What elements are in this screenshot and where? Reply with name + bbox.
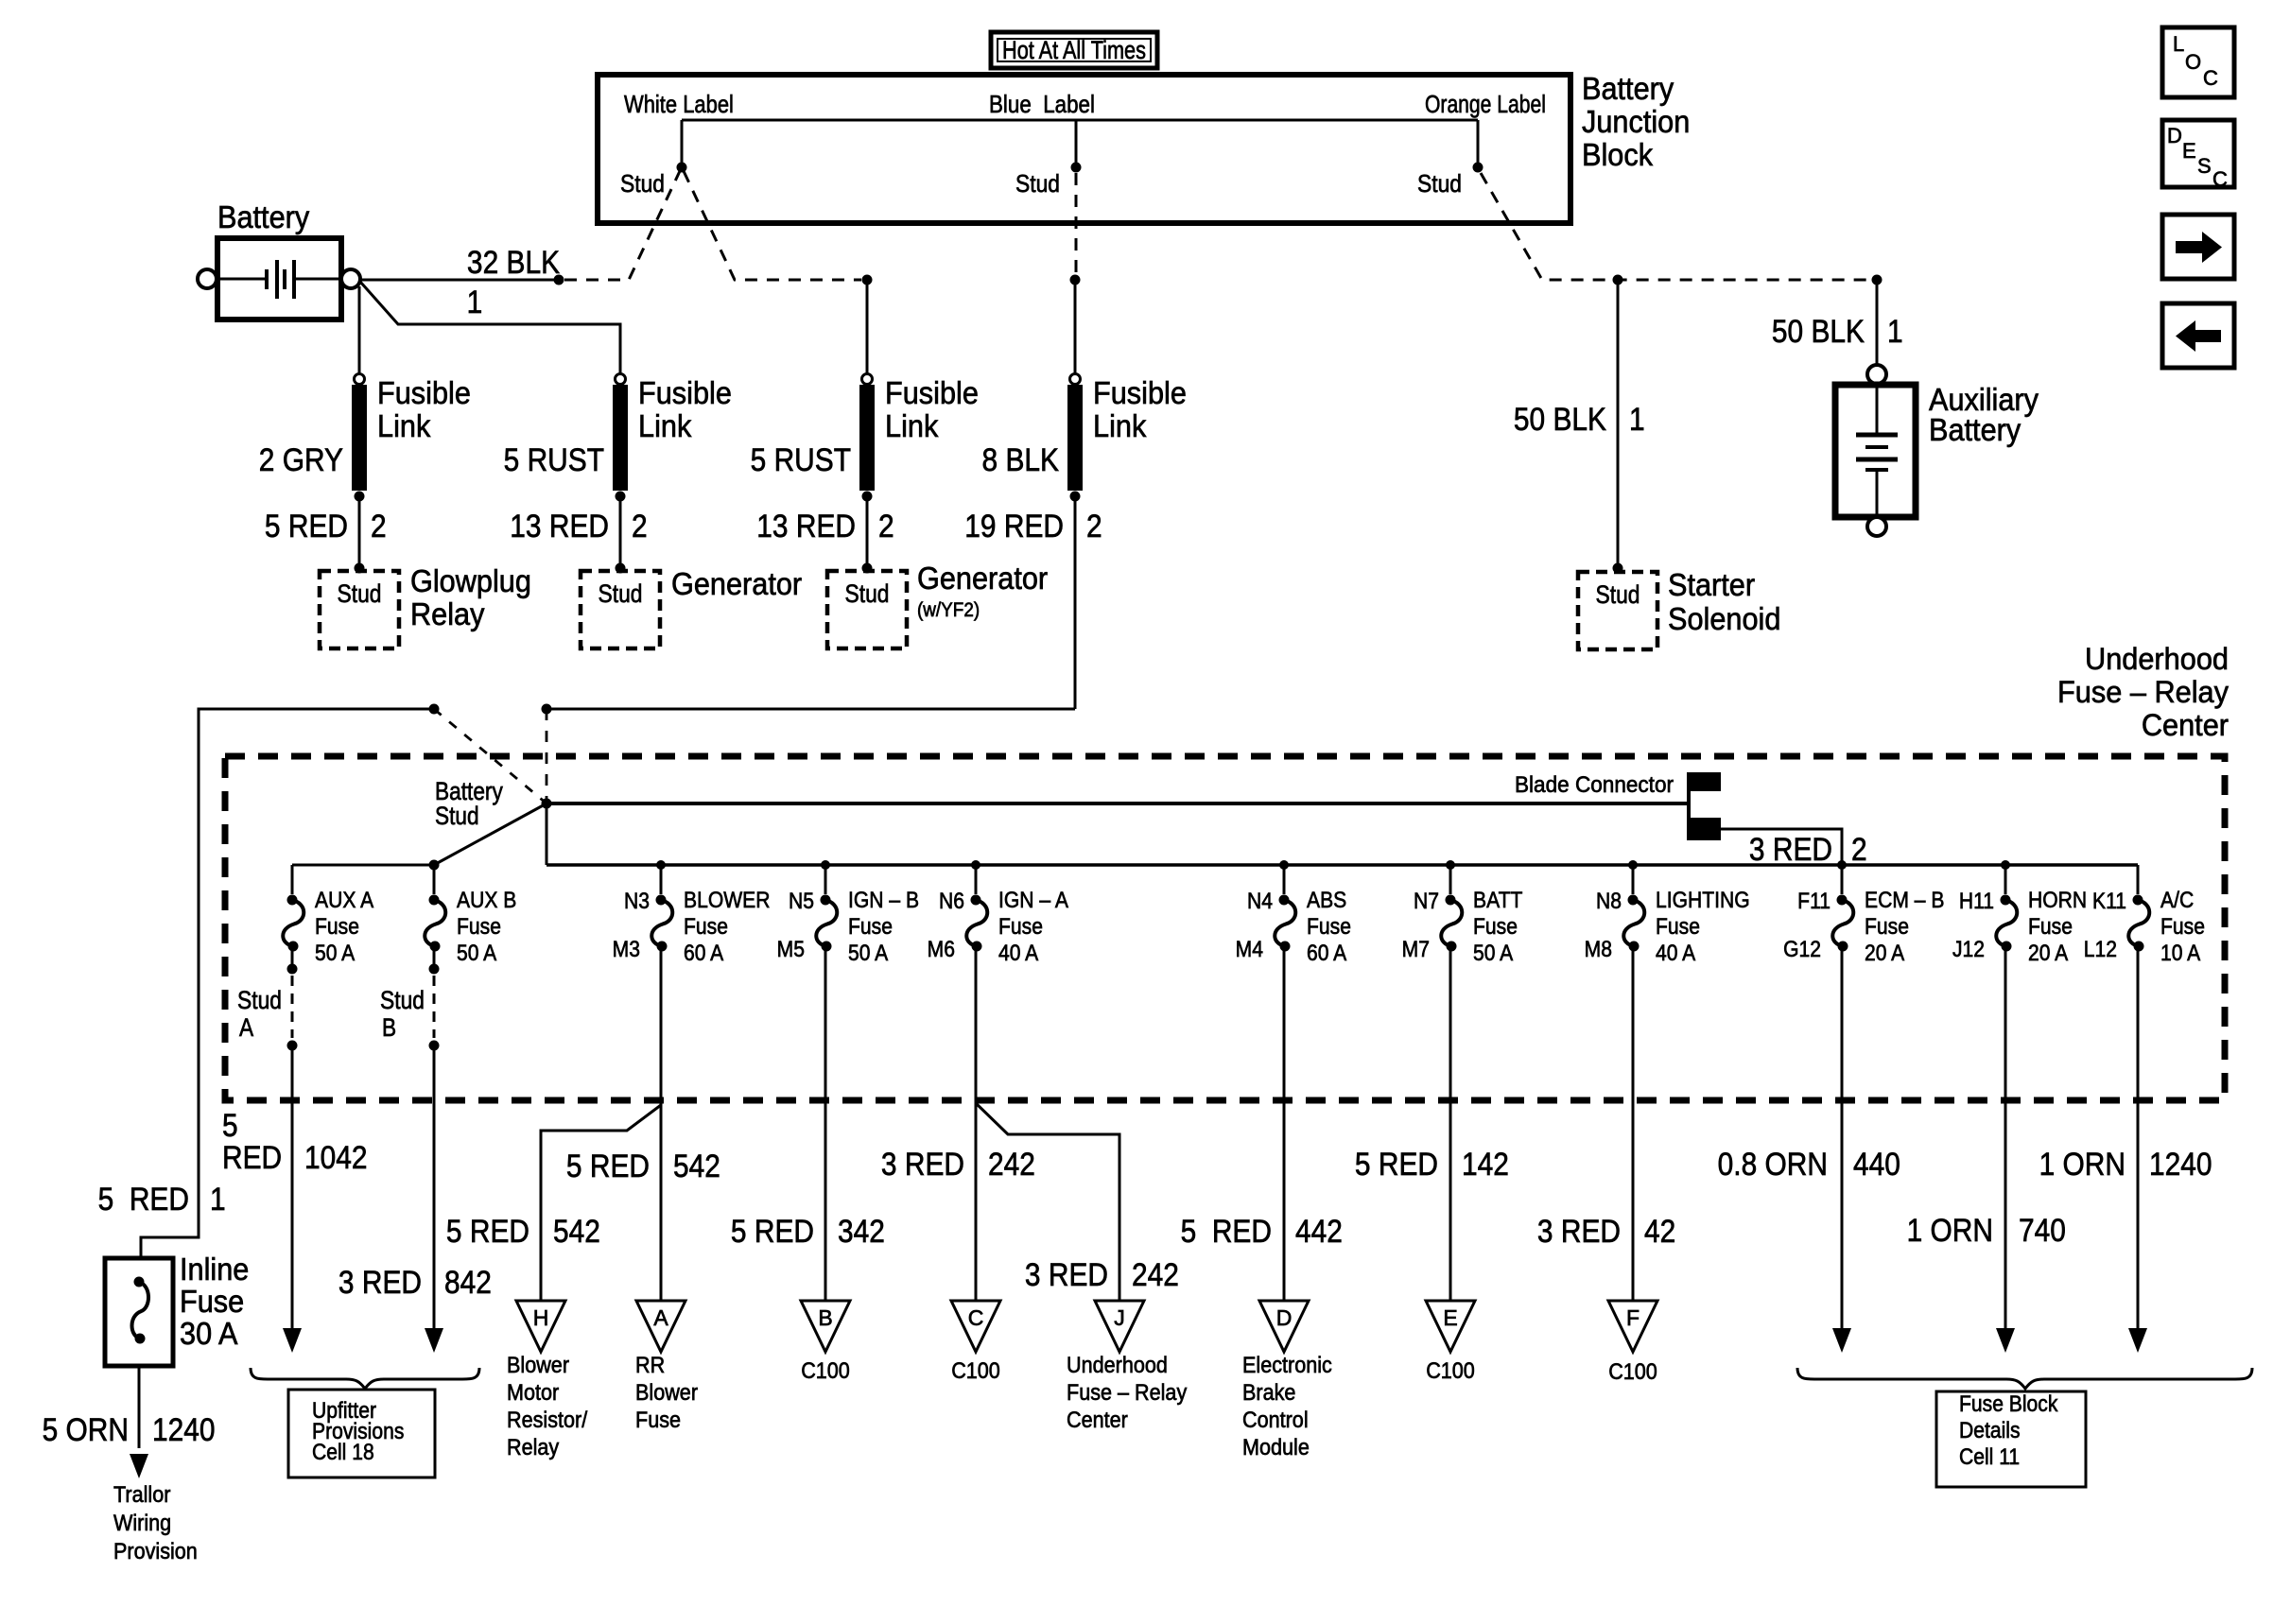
svg-text:O: O [2185, 50, 2201, 74]
svg-text:1042: 1042 [304, 1139, 368, 1175]
connector C [951, 1301, 1000, 1352]
svg-text:Battery: Battery [1929, 412, 2021, 447]
svg-text:E: E [2182, 139, 2196, 163]
svg-text:ECM – B: ECM – B [1865, 888, 1944, 913]
svg-text:60 A: 60 A [684, 941, 724, 966]
label 5 RUST [504, 441, 604, 477]
svg-text:5 RED: 5 RED [1181, 1213, 1272, 1249]
fusible link 4 [1067, 275, 1083, 502]
svg-text:Stud: Stud [620, 171, 665, 199]
fusible link 3 [859, 275, 875, 502]
svg-text:1240: 1240 [2149, 1146, 2212, 1182]
label RR Blower Fuse [635, 1352, 698, 1432]
svg-text:Junction: Junction [1582, 104, 1690, 139]
wire 5 RED 442 [1181, 946, 1343, 1301]
svg-text:Fuse: Fuse [457, 914, 501, 940]
wire 5 ORN 1240 [43, 1366, 216, 1478]
svg-text:Stud: Stud [380, 986, 425, 1014]
svg-text:M7: M7 [1402, 937, 1430, 962]
svg-text:Fuse: Fuse [998, 914, 1043, 940]
svg-text:N4: N4 [1247, 889, 1273, 914]
label Auxiliary Battery [1929, 382, 2039, 447]
svg-text:Inline: Inline [180, 1252, 249, 1287]
fuse IGN-B 50A [777, 860, 919, 965]
wire 5 RED 2 [265, 508, 387, 544]
wire 19 RED 2 [964, 508, 1102, 544]
wire 1 (battery to fusible link 2) [360, 282, 620, 374]
svg-text:5 RUST: 5 RUST [504, 441, 604, 477]
svg-text:13 RED: 13 RED [756, 508, 856, 544]
svg-text:442: 442 [1295, 1213, 1343, 1249]
label Fusible Link at x=656 [638, 375, 732, 443]
icon box arrow left [2162, 303, 2234, 368]
icon box DESC [2162, 120, 2234, 191]
svg-text:Fuse: Fuse [2028, 914, 2073, 940]
svg-text:HORN: HORN [2028, 888, 2087, 913]
svg-text:Trallor: Trallor [113, 1481, 171, 1507]
svg-text:F: F [1626, 1305, 1640, 1330]
label Fusible Link at x=917 [885, 375, 979, 443]
svg-text:LIGHTING: LIGHTING [1656, 888, 1750, 913]
wire 3 RED 42 [1537, 946, 1675, 1301]
svg-text:M5: M5 [777, 937, 805, 962]
svg-text:A/C: A/C [2160, 888, 2194, 913]
svg-text:N6: N6 [939, 889, 964, 914]
svg-text:Fusible: Fusible [1093, 375, 1187, 410]
label C100 (C) [951, 1357, 1000, 1383]
svg-text:Underhood: Underhood [2085, 642, 2229, 676]
fuse A/C 10A [2084, 865, 2205, 965]
wire 32 BLK [360, 244, 564, 285]
svg-text:M8: M8 [1585, 937, 1612, 962]
wire feed bus from fusible link 4 [141, 704, 1075, 1259]
svg-text:Fuse: Fuse [1656, 914, 1700, 940]
svg-text:Link: Link [1093, 408, 1146, 443]
svg-text:(w/YF2): (w/YF2) [917, 599, 980, 621]
svg-text:60 A: 60 A [1307, 941, 1347, 966]
svg-text:Link: Link [638, 408, 691, 443]
svg-text:Fuse: Fuse [180, 1284, 244, 1319]
svg-text:A: A [239, 1013, 253, 1042]
svg-text:2: 2 [1086, 508, 1102, 544]
svg-text:BATT: BATT [1473, 888, 1523, 913]
svg-text:Stud: Stud [1015, 171, 1060, 199]
underhood fuse-relay center border [225, 756, 2225, 1100]
svg-text:N7: N7 [1414, 889, 1439, 914]
svg-text:Battery: Battery [1582, 71, 1674, 106]
glowplug relay stud box [320, 571, 399, 648]
label Glowplug Relay [410, 563, 531, 631]
svg-text:M6: M6 [928, 937, 955, 962]
svg-text:Details: Details [1959, 1418, 2021, 1443]
svg-text:8 BLK: 8 BLK [982, 441, 1059, 477]
label Stud (white) [620, 171, 665, 199]
wire 50 BLK 1 (starter) [1514, 401, 1645, 437]
svg-text:50 BLK: 50 BLK [1514, 401, 1606, 437]
svg-text:C100: C100 [1426, 1357, 1475, 1383]
wire starter solenoid feed [1613, 275, 1623, 574]
svg-text:Cell 18: Cell 18 [312, 1440, 374, 1465]
label Stud (blue) [1015, 171, 1060, 199]
wire dashed white stud to fusible link 3 [684, 171, 861, 280]
svg-text:5 RED: 5 RED [1355, 1146, 1438, 1182]
svg-text:Stud: Stud [1417, 171, 1462, 199]
node White Label [624, 91, 734, 118]
label Fuse Block Details Cell 11 [1936, 1391, 2086, 1487]
label Trallor Wiring Provision [113, 1481, 198, 1564]
node battery stud [435, 777, 552, 830]
label 5 RUST [751, 441, 851, 477]
svg-text:542: 542 [673, 1148, 720, 1183]
wire 1 ORN 1240 [2039, 946, 2212, 1353]
svg-text:Blue Label: Blue Label [989, 91, 1095, 118]
inline fuse 30A [105, 1258, 173, 1366]
wire fusible link 1 to glowplug stud [355, 496, 365, 574]
svg-text:242: 242 [988, 1146, 1035, 1182]
svg-text:5 RED: 5 RED [265, 508, 348, 544]
wire orange label stud riser [1473, 120, 1484, 173]
svg-text:342: 342 [838, 1213, 885, 1249]
connector J [1095, 1301, 1144, 1352]
label 8 BLK [982, 441, 1059, 477]
svg-text:50 A: 50 A [457, 941, 497, 966]
svg-text:5 RUST: 5 RUST [751, 441, 851, 477]
wire 5 RED 542 (blower motor branch) [446, 1105, 661, 1301]
svg-text:Stud: Stud [435, 802, 479, 830]
svg-text:0.8 ORN: 0.8 ORN [1718, 1146, 1828, 1182]
svg-text:M4: M4 [1236, 937, 1263, 962]
svg-text:M3: M3 [613, 937, 640, 962]
label Hot At All Times [991, 32, 1157, 68]
svg-text:C100: C100 [801, 1357, 850, 1383]
svg-text:Center: Center [1067, 1407, 1128, 1432]
label Generator [671, 566, 803, 601]
wire dashed blue stud to fusible link 4 [1075, 173, 1078, 274]
svg-text:Fuse: Fuse [684, 914, 728, 940]
svg-text:J: J [1114, 1305, 1125, 1330]
svg-text:Fusible: Fusible [885, 375, 979, 410]
label Fusible Link at x=1137 [1093, 375, 1187, 443]
wire blue label stud riser [1071, 120, 1082, 173]
svg-text:Block: Block [1582, 137, 1653, 172]
svg-text:Electronic: Electronic [1242, 1352, 1332, 1377]
label Blower Motor Resistor/Relay [507, 1352, 588, 1460]
wire 5 RED 142 [1355, 946, 1509, 1301]
svg-text:Fuse: Fuse [1473, 914, 1518, 940]
svg-text:H: H [533, 1305, 549, 1330]
svg-text:1: 1 [210, 1181, 226, 1217]
fuse AUX A 50A [283, 865, 374, 965]
svg-text:BLOWER: BLOWER [684, 888, 770, 913]
svg-text:Relay: Relay [410, 596, 485, 631]
svg-text:Fuse Block: Fuse Block [1959, 1391, 2058, 1417]
wire 3 RED 2 [1721, 829, 1867, 867]
wire white label stud riser [677, 120, 687, 173]
wire fusible link 4 down to fuse center [1074, 496, 1077, 709]
fuse BLOWER 60A [613, 860, 771, 965]
wire 5 RED 1 [98, 1181, 226, 1217]
svg-text:Stud: Stud [338, 579, 382, 608]
fuse ECM-B 20A [1783, 860, 1944, 965]
connector D [1259, 1301, 1309, 1352]
svg-text:740: 740 [2019, 1212, 2066, 1248]
svg-text:1: 1 [1887, 313, 1903, 349]
svg-text:Stud: Stud [1596, 580, 1640, 609]
svg-text:Control: Control [1242, 1407, 1309, 1432]
svg-text:50 A: 50 A [315, 941, 356, 966]
wire 3 RED 242 (branch to J) [976, 1103, 1179, 1301]
svg-text:J12: J12 [1952, 937, 1985, 962]
svg-text:Fuse: Fuse [315, 914, 359, 940]
svg-text:5 RED: 5 RED [446, 1213, 529, 1249]
wire fusible link 3 to generator stud [862, 496, 873, 574]
wire 3 RED 842 (AUX B output) [338, 1045, 492, 1353]
wire dashed white stud to 32 BLK node [564, 171, 680, 280]
wire 3 RED 242 (IGN-A to C100) [881, 946, 1035, 1301]
wire 13 RED 2 [756, 508, 894, 544]
svg-text:5 RED: 5 RED [731, 1213, 814, 1249]
svg-text:C: C [2212, 167, 2228, 191]
svg-text:5 RED: 5 RED [98, 1181, 189, 1217]
svg-text:Link: Link [377, 408, 430, 443]
wire junction block bus [682, 119, 1478, 122]
svg-text:32 BLK: 32 BLK [467, 244, 560, 280]
svg-text:C100: C100 [951, 1357, 1000, 1383]
fuse HORN 20A [1952, 860, 2087, 965]
fusible link 1 [352, 286, 367, 502]
svg-text:Provision: Provision [113, 1538, 198, 1564]
connector E [1426, 1301, 1475, 1352]
svg-text:Fuse – Relay: Fuse – Relay [1067, 1379, 1188, 1405]
svg-text:RED: RED [222, 1139, 282, 1175]
svg-text:Generator: Generator [917, 561, 1049, 596]
svg-text:Fuse: Fuse [1307, 914, 1351, 940]
fuse ABS 60A [1236, 860, 1351, 965]
svg-text:K11: K11 [2092, 889, 2126, 914]
label C100 (B) [801, 1357, 850, 1383]
generator stud box [581, 571, 660, 648]
svg-text:50 BLK: 50 BLK [1772, 313, 1865, 349]
wire 0.8 ORN 440 [1718, 946, 1900, 1353]
svg-text:Blower: Blower [635, 1379, 698, 1405]
wire 50 BLK 1 (aux battery) [1772, 275, 1903, 366]
icon box arrow right [2162, 215, 2234, 279]
brace upfitter [251, 1368, 479, 1389]
wire aux fuse bus [292, 864, 434, 867]
svg-text:2: 2 [632, 508, 648, 544]
svg-text:Center: Center [2142, 708, 2229, 742]
svg-text:3 RED: 3 RED [1537, 1213, 1621, 1249]
svg-text:1 ORN: 1 ORN [2039, 1146, 2126, 1182]
svg-text:2 GRY: 2 GRY [259, 441, 343, 477]
svg-text:Glowplug: Glowplug [410, 563, 531, 598]
label Upfitter Provisions Cell 18 [288, 1390, 435, 1477]
svg-text:2: 2 [878, 508, 894, 544]
battery [198, 199, 360, 320]
svg-text:542: 542 [553, 1213, 600, 1249]
svg-text:40 A: 40 A [998, 941, 1039, 966]
connector A [636, 1301, 685, 1352]
wire 5 RED 542 (RR blower) [566, 946, 720, 1301]
svg-text:3 RED: 3 RED [1025, 1256, 1108, 1292]
wire main bus to blade connector [547, 802, 1687, 805]
node Blue Label [989, 91, 1095, 118]
brace fuse block details [1797, 1368, 2252, 1389]
svg-text:Hot At All Times: Hot At All Times [1002, 37, 1146, 65]
wire battery stud drop [546, 803, 548, 865]
svg-text:ABS: ABS [1307, 888, 1346, 913]
svg-text:2: 2 [371, 508, 387, 544]
label C100 (F) [1608, 1358, 1657, 1384]
svg-text:Link: Link [885, 408, 938, 443]
wire battery stud to aux bus diagonal [429, 803, 547, 871]
fuse IGN-A 40A [928, 860, 1069, 965]
svg-text:B: B [818, 1305, 832, 1330]
svg-text:142: 142 [1462, 1146, 1509, 1182]
svg-text:842: 842 [444, 1264, 492, 1300]
svg-text:20 A: 20 A [2028, 941, 2069, 966]
svg-text:C: C [2203, 66, 2218, 90]
svg-text:242: 242 [1132, 1256, 1179, 1292]
starter solenoid stud box [1578, 572, 1657, 649]
wire 5 RED 342 [731, 946, 885, 1301]
wire fusible link 2 to generator stud [616, 496, 626, 574]
svg-text:Solenoid: Solenoid [1668, 601, 1780, 636]
svg-text:Generator: Generator [671, 566, 803, 601]
svg-text:Brake: Brake [1242, 1379, 1295, 1405]
wire dashed into battery stud (diagonal) [434, 709, 547, 803]
blade connector [1515, 771, 1721, 840]
svg-text:Resistor/: Resistor/ [507, 1407, 588, 1432]
svg-text:10 A: 10 A [2160, 941, 2201, 966]
svg-text:Fuse: Fuse [848, 914, 893, 940]
svg-text:30 A: 30 A [180, 1316, 238, 1351]
svg-text:IGN – A: IGN – A [998, 888, 1069, 913]
label Fusible Link at x=380 [377, 375, 471, 443]
svg-text:Fuse: Fuse [2160, 914, 2205, 940]
svg-text:Blade Connector: Blade Connector [1515, 771, 1674, 797]
wire dashed into battery stud (vertical) [546, 709, 548, 803]
label Underhood Fuse-Relay Center (J) [1067, 1352, 1188, 1432]
svg-text:F11: F11 [1797, 889, 1831, 914]
svg-text:N3: N3 [624, 889, 650, 914]
svg-text:50 A: 50 A [1473, 941, 1514, 966]
svg-text:D: D [2167, 124, 2182, 147]
connector H [516, 1301, 565, 1352]
wire dashed orange stud run [1481, 173, 1871, 280]
wire lower fuse bus [547, 863, 2138, 867]
fuse LIGHTING 40A [1585, 860, 1750, 965]
svg-text:Fuse: Fuse [635, 1407, 681, 1432]
svg-text:N8: N8 [1596, 889, 1622, 914]
svg-text:19 RED: 19 RED [964, 508, 1064, 544]
label Stud (orange) [1417, 171, 1462, 199]
label 2 GRY [259, 441, 343, 477]
svg-text:Cell 11: Cell 11 [1959, 1444, 2020, 1470]
fuse BATT 50A [1402, 860, 1523, 965]
svg-text:E: E [1443, 1305, 1457, 1330]
svg-text:Stud: Stud [599, 579, 643, 608]
svg-text:1: 1 [467, 284, 483, 320]
wire 13 RED 2 [510, 508, 647, 544]
svg-text:Battery: Battery [217, 199, 309, 234]
svg-text:AUX B: AUX B [457, 888, 516, 913]
svg-text:Blower: Blower [507, 1352, 569, 1377]
svg-text:Wiring: Wiring [113, 1510, 171, 1535]
svg-text:C: C [968, 1305, 984, 1330]
node Stud B [380, 946, 440, 1051]
svg-text:50 A: 50 A [848, 941, 889, 966]
svg-text:Motor: Motor [507, 1379, 560, 1405]
svg-text:Underhood: Underhood [1067, 1352, 1168, 1377]
svg-text:B: B [382, 1013, 396, 1042]
svg-text:Fuse – Relay: Fuse – Relay [2057, 675, 2229, 709]
svg-text:Module: Module [1242, 1434, 1310, 1460]
svg-text:2: 2 [1851, 831, 1867, 867]
svg-text:IGN – B: IGN – B [848, 888, 919, 913]
fuse AUX B 50A [425, 865, 516, 965]
fusible link 2 [613, 374, 628, 502]
svg-text:5: 5 [222, 1107, 238, 1143]
node Orange Label [1425, 92, 1546, 119]
node Stud A [237, 946, 298, 1051]
svg-text:L12: L12 [2084, 937, 2117, 962]
svg-text:Relay: Relay [507, 1434, 560, 1460]
wire 5 RED 1042 (AUX A output) [222, 1045, 368, 1353]
svg-text:G12: G12 [1783, 937, 1821, 962]
svg-text:42: 42 [1644, 1213, 1675, 1249]
connector F [1608, 1301, 1657, 1352]
svg-text:Orange Label: Orange Label [1425, 92, 1546, 119]
label Electronic Brake Control Module [1242, 1352, 1332, 1460]
svg-text:L: L [2173, 32, 2184, 56]
svg-text:Starter: Starter [1668, 567, 1755, 602]
svg-text:N5: N5 [789, 889, 814, 914]
label Battery Junction Block [1582, 71, 1690, 172]
svg-text:440: 440 [1853, 1146, 1900, 1182]
svg-text:RR: RR [635, 1352, 665, 1377]
svg-text:1240: 1240 [152, 1411, 216, 1447]
svg-text:5 ORN: 5 ORN [43, 1411, 129, 1447]
label Underhood Fuse-Relay Center [2057, 642, 2229, 742]
auxiliary battery [1835, 365, 1916, 536]
connector B [801, 1301, 850, 1352]
svg-text:13 RED: 13 RED [510, 508, 609, 544]
wire 1 ORN 740 [1907, 946, 2066, 1353]
svg-text:C100: C100 [1608, 1358, 1657, 1384]
svg-text:AUX A: AUX A [315, 888, 374, 913]
svg-text:20 A: 20 A [1865, 941, 1905, 966]
svg-text:S: S [2197, 154, 2212, 178]
svg-text:A: A [653, 1305, 668, 1330]
svg-text:Stud: Stud [845, 579, 890, 608]
svg-text:1 ORN: 1 ORN [1907, 1212, 1993, 1248]
icon box LOC [2162, 27, 2234, 97]
svg-text:D: D [1276, 1305, 1293, 1330]
label Generator (w/YF2) [917, 561, 1049, 621]
battery junction block [598, 75, 1570, 223]
svg-text:3 RED: 3 RED [881, 1146, 964, 1182]
generator w/YF2 stud box [827, 571, 907, 648]
label Inline Fuse 30 A [180, 1252, 249, 1351]
svg-text:3 RED: 3 RED [338, 1264, 422, 1300]
svg-text:Fusible: Fusible [377, 375, 471, 410]
svg-text:5 RED: 5 RED [566, 1148, 650, 1183]
svg-text:3 RED: 3 RED [1749, 831, 1832, 867]
label C100 (E) [1426, 1357, 1475, 1383]
svg-text:Stud: Stud [237, 986, 282, 1014]
svg-text:1: 1 [1629, 401, 1645, 437]
